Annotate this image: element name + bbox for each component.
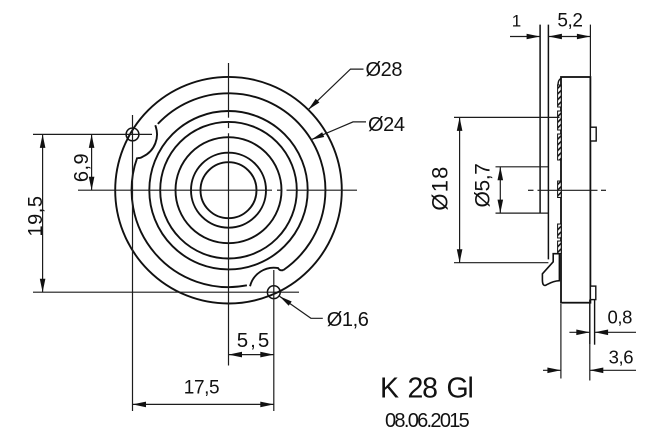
side view: dome front line <box>539 25 541 213</box>
side view: centre line <box>528 189 534 191</box>
svg-text:5,5: 5,5 <box>237 329 272 352</box>
hole top-left <box>126 128 139 141</box>
svg-text:Ø1,6: Ø1,6 <box>327 309 369 331</box>
leader O1,6 <box>280 296 323 318</box>
svg-text:3,6: 3,6 <box>609 347 634 368</box>
side view: hatched section bars <box>558 85 562 107</box>
svg-text:19,5: 19,5 <box>25 196 47 237</box>
svg-text:17,5: 17,5 <box>184 378 219 399</box>
dim 5,5 <box>229 354 274 356</box>
svg-text:0,8: 0,8 <box>608 306 633 327</box>
side view: top tab <box>590 127 596 141</box>
svg-text:Ø24: Ø24 <box>368 114 405 136</box>
dim 3,6 <box>560 304 562 379</box>
side view: frame front line <box>547 25 549 260</box>
notch arcs around mounting holes <box>137 125 157 158</box>
dim O18 <box>454 116 560 118</box>
leader O24 <box>311 122 366 140</box>
svg-text:6,9: 6,9 <box>71 153 93 182</box>
svg-text:Ø5,7: Ø5,7 <box>472 164 495 208</box>
side view: terminal pin <box>589 300 591 344</box>
centre lines front view <box>78 189 272 191</box>
dim 0,8 <box>569 331 589 333</box>
svg-text:Ø28: Ø28 <box>366 59 403 81</box>
side view: body <box>561 77 590 303</box>
dim 17,5 <box>133 403 274 405</box>
svg-text:08.06.2015: 08.06.2015 <box>385 410 470 432</box>
side view: mounting ear profile <box>542 254 559 286</box>
svg-text:5,2: 5,2 <box>557 11 582 32</box>
svg-text:K 28 Gl: K 28 Gl <box>380 373 473 405</box>
side view: diaphragm edge curve <box>558 78 561 86</box>
dim 6,9 <box>91 134 93 190</box>
svg-text:1: 1 <box>512 12 521 31</box>
svg-text:Ø18: Ø18 <box>428 165 453 210</box>
front view: concentric circles <box>115 77 342 304</box>
leader O28 <box>308 69 363 110</box>
dim 19,5 <box>42 134 44 292</box>
dim O5,7 <box>496 166 549 168</box>
dim 1 and 5,2 <box>510 36 540 38</box>
side view: bottom tab <box>590 286 595 300</box>
hole bottom-right <box>267 286 280 299</box>
